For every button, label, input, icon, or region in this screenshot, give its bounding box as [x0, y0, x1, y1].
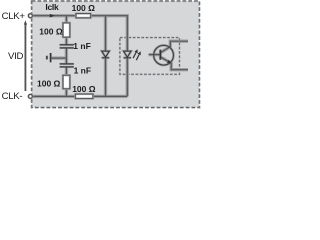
svg-text:100 Ω: 100 Ω	[37, 79, 61, 89]
svg-text:1 nF: 1 nF	[74, 66, 91, 76]
svg-text:1 nF: 1 nF	[73, 41, 90, 51]
svg-text:100 Ω: 100 Ω	[39, 26, 63, 36]
svg-text:CLK-: CLK-	[2, 91, 23, 102]
svg-text:100 Ω: 100 Ω	[72, 3, 96, 13]
svg-text:CLK+: CLK+	[2, 11, 26, 22]
svg-text:VID: VID	[8, 51, 23, 62]
svg-text:Iclk: Iclk	[45, 2, 59, 12]
svg-text:100 Ω: 100 Ω	[72, 84, 96, 94]
